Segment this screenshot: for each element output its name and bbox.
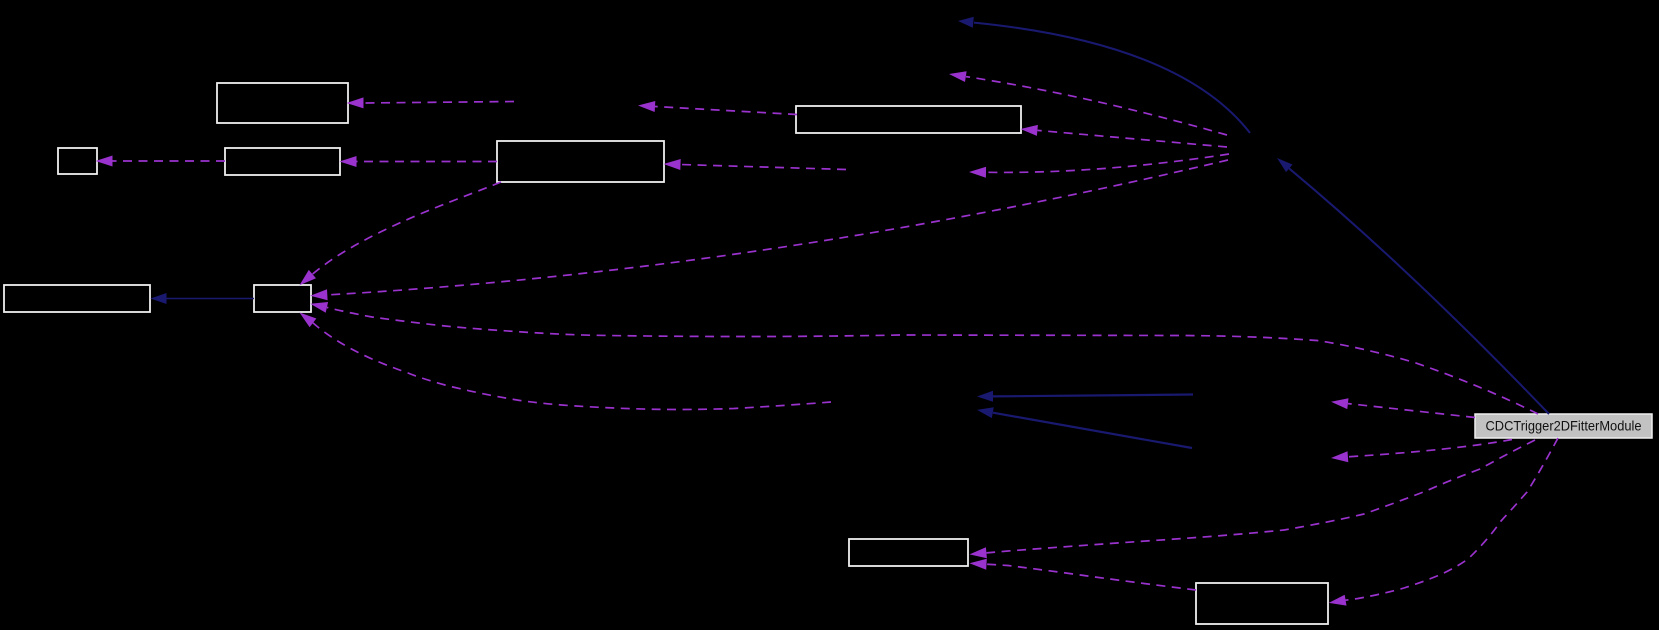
wire edge Fitter to G (long dashed curve) [327, 307, 1538, 414]
wire edge N5 to G (dashed curve) [313, 323, 831, 410]
wire edge Fitter to N7 (dashed) [1348, 404, 1475, 418]
wire edge N9 to N5 (blue solid) [993, 413, 1192, 448]
wire edge Fitter to I (dashed curve) [1346, 438, 1559, 600]
node I [1196, 583, 1328, 624]
node D [497, 141, 664, 182]
wire edge C to B (dashed) [113, 160, 226, 162]
wire edge hub to Ntop (dashed) [966, 77, 1227, 135]
wire edge hub to G (long dashed curve) [327, 160, 1228, 295]
node E [796, 106, 1021, 133]
node F [4, 285, 150, 312]
wire edge I to H (dashed) [987, 564, 1197, 590]
wire edge hub to E (dashed) [1038, 130, 1228, 147]
node C [225, 148, 340, 175]
wire edge hub to top node (blue solid curve) [974, 23, 1250, 133]
svg-text:CDCTrigger2DFitterModule: CDCTrigger2DFitterModule [1486, 418, 1642, 434]
wire edge G to F (blue solid) [167, 298, 255, 300]
wire edge N1 to A (dashed) [364, 102, 515, 104]
wire edge Fitter to H (long dashed curve) [987, 440, 1536, 553]
node A [217, 83, 348, 123]
wire edge D to C (dashed) [357, 161, 498, 163]
wire edge N4 to D (dashed) [681, 165, 847, 170]
wire edge E to N1 (dashed) [655, 107, 797, 115]
wire edge D to G (dashed curve) [313, 182, 502, 274]
node G [254, 285, 311, 312]
node H [849, 539, 968, 566]
wire edge N10 to N5 (blue solid) [993, 395, 1193, 397]
node U1 CDCTrigger2DFitterModule [1475, 414, 1652, 438]
wire edge Fitter to hub (blue solid) [1289, 168, 1549, 414]
node B [58, 148, 97, 174]
wire edge hub to N4 (dashed) [986, 154, 1229, 172]
wire edge Fitter to N8 (dashed) [1348, 440, 1512, 457]
